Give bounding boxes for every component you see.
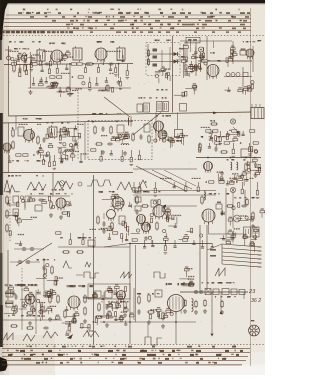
resistor R64 [138, 295, 140, 304]
resistor R56 [26, 327, 34, 329]
label V7 [156, 115, 171, 117]
left edge shadow [0, 0, 9, 375]
junction dots B [92, 121, 94, 123]
waveform row circle 2 [78, 182, 82, 186]
circled cross [230, 119, 235, 124]
footer bold word blocks [8, 346, 243, 364]
wire vertical x253 [252, 46, 254, 72]
waveform W5 [117, 182, 132, 190]
label V5 [23, 118, 42, 120]
junction dots E [103, 321, 105, 323]
bus end connector [129, 117, 132, 127]
ground B1 [36, 150, 40, 154]
bottom left parts [4, 296, 45, 315]
coil L3 [231, 162, 232, 170]
wire vertical x30 [30, 52, 32, 88]
wire vertical x190 [190, 41, 192, 52]
wire y196 cluster [25, 195, 70, 197]
footer text row 2 [7, 350, 236, 352]
wire vertical x16 B [15, 116, 17, 130]
capacitor C17 [140, 134, 143, 140]
ground A2 [68, 92, 72, 96]
ground C1 [49, 213, 53, 217]
arrowhead left at x161 [162, 205, 167, 208]
header rule line 1 [6, 14, 251, 16]
vertical x212 wire [211, 292, 213, 333]
capacitor C23 [136, 209, 139, 215]
capacitor C21 [38, 199, 44, 202]
capacitor C27 [29, 247, 35, 251]
wire vertical x185 [184, 42, 186, 76]
wire vertical x196 [195, 42, 197, 76]
resistor R48 [51, 265, 53, 274]
capacitor C26b [17, 260, 23, 264]
resistor R36 [61, 212, 69, 214]
labels input [14, 48, 29, 50]
resistor R42 [201, 195, 203, 204]
labels coils [37, 259, 56, 261]
left column parts y265-295 [36, 264, 63, 296]
header rule line 2 [4, 18, 251, 20]
black left edge upper [0, 0, 2, 60]
ground E8 [161, 324, 165, 328]
label V12 [209, 193, 229, 195]
band B left gap parts [57, 125, 86, 154]
vertical x207 E [206, 225, 208, 290]
bottom rightmid parts [149, 307, 173, 319]
tube V10b [107, 210, 116, 222]
band A upper row b [107, 51, 125, 62]
bus y122 left [0, 121, 133, 123]
wire x104 down [103, 213, 105, 219]
right edge column parts [245, 147, 261, 173]
double wire y190 [133, 190, 216, 192]
sub box y285 [88, 284, 130, 299]
resistor R50c [221, 300, 223, 308]
right D parts [221, 203, 265, 246]
waveform W12 [23, 334, 35, 341]
footer rule line 1 [2, 348, 250, 350]
IF transformer T6 [49, 125, 57, 139]
band B left parts [39, 143, 75, 161]
wire vertical x8 B [8, 123, 10, 172]
resistor R2 [24, 63, 26, 72]
resistor R50 [195, 300, 197, 308]
resistor R29 [220, 151, 228, 153]
resistor R8 [147, 49, 149, 57]
tube V9 [56, 198, 66, 211]
waveform W16 square [154, 272, 165, 278]
dashed box lower row [91, 149, 141, 166]
footer text row 5 [42, 362, 215, 364]
CH- label [210, 249, 216, 251]
bus y158 right [196, 157, 261, 159]
resistor R38 [111, 221, 113, 230]
wire vertical x177 B [177, 113, 179, 130]
resistor R43 [226, 205, 234, 207]
resistor R39 [136, 195, 138, 204]
waveform W10 [215, 268, 225, 276]
label [171, 140, 182, 142]
band A second row [32, 73, 122, 91]
wire vertical x162 [161, 50, 163, 67]
small arrow x221 [220, 311, 223, 314]
paper bottom white edge [0, 364, 265, 375]
capacitor C30 [41, 310, 47, 313]
labels band B right2 [227, 159, 246, 161]
waveform W15 square [145, 337, 162, 345]
parts x180 y270-286 [179, 267, 194, 287]
header rule line 5 [2, 29, 251, 31]
ground E1d [220, 310, 224, 314]
wire y76 bottom row [224, 76, 252, 78]
labels stage1 [9, 41, 41, 43]
footer rule line 3 [2, 356, 248, 358]
tube V11d [153, 205, 165, 220]
diode D2 [172, 60, 180, 64]
header rule line 3 [4, 22, 251, 24]
wire vertical x170 [169, 47, 171, 70]
label [210, 120, 215, 122]
left dense row y288 [9, 285, 53, 305]
circled cross D [230, 187, 235, 192]
resistor R37 [97, 215, 99, 224]
resistor R51 [15, 304, 17, 313]
tube V14 [68, 296, 80, 311]
footer rule line 4 [2, 360, 246, 362]
tube V12 [202, 209, 215, 225]
vertical x104 E [103, 292, 105, 315]
resistor R33 [6, 223, 8, 232]
label MHz [210, 52, 215, 54]
box x175 [175, 130, 183, 138]
resistor R41 [156, 221, 158, 230]
header text row 4 [71, 24, 199, 26]
capacitor C22 [103, 221, 106, 227]
waveform W4 [87, 180, 111, 186]
dashed vertical x22 [21, 268, 23, 292]
wire diode row 2 [147, 61, 172, 63]
wire vertical x156 B [155, 113, 157, 143]
label V3 [208, 60, 221, 62]
label yoke [251, 320, 255, 322]
ground C5 [251, 224, 255, 228]
bus y243 [130, 243, 212, 245]
ground E6 [123, 313, 127, 317]
band A component row [11, 60, 129, 79]
box under 244 [243, 73, 248, 77]
vertical x122 E [120, 296, 122, 301]
wire vertical x200 [200, 52, 202, 72]
label cluster 88b [67, 93, 74, 95]
bottom-left corner shadow [0, 335, 55, 375]
band A small parts [39, 81, 114, 92]
label V14 [67, 285, 93, 287]
tube V14b [117, 291, 126, 303]
wire vertical x205 D [204, 190, 206, 200]
grid mid parts [189, 54, 208, 70]
waveform W1 [4, 180, 15, 192]
tube V2 [95, 48, 107, 63]
junction dots band A [30, 63, 32, 65]
band B right lower parts [217, 170, 260, 185]
footer text row 3 [10, 354, 234, 356]
arrow glyph bottom [67, 334, 73, 339]
labels above cans [156, 89, 167, 91]
capacitor C25 [241, 205, 247, 208]
divider right segment [133, 168, 197, 170]
wire y206 right [166, 205, 197, 207]
header text row 0 [23, 9, 240, 11]
resistor R46 [62, 251, 70, 253]
vertical x200 [199, 225, 201, 290]
capacitor C3 [44, 63, 50, 66]
header text row 2 [45, 16, 234, 18]
resistor R44x [246, 198, 248, 206]
diagonal bus join [104, 244, 130, 248]
footer text row 4 [21, 358, 226, 360]
capacitor C15 [102, 126, 105, 132]
header dashed separator [0, 35, 265, 37]
vertical x244 wire [243, 292, 245, 299]
footer rule line 5 [2, 364, 242, 366]
waveform W9b [120, 272, 132, 278]
waveform W11 [3, 333, 13, 340]
black scan strip left middle [0, 113, 3, 195]
resistor R54 [57, 294, 59, 303]
labels cluster C1 [33, 189, 64, 191]
label D2 [178, 56, 185, 58]
resistor R16 [12, 128, 14, 137]
tube V5 [24, 130, 35, 144]
vertical x44 E [43, 258, 45, 290]
parts below V12 [200, 234, 255, 252]
capacitor C4 [85, 63, 91, 66]
resistor R49 [184, 299, 186, 307]
resistor R57 [64, 309, 66, 318]
bottom mid-right parts [100, 290, 134, 321]
header dense left block [2, 31, 241, 33]
deflection yoke [249, 325, 260, 336]
waveform W2 [27, 182, 46, 190]
ground C4 [144, 236, 148, 240]
hatched blocks [153, 49, 158, 52]
wire x208 down [208, 222, 210, 234]
wire vertical x187 [186, 41, 188, 58]
resistor R34 [28, 199, 36, 201]
labels bus right [183, 282, 234, 284]
wire vertical x8 [8, 46, 10, 116]
center D parts [150, 200, 170, 223]
labels band B left [12, 160, 45, 162]
bus y247 left [58, 246, 130, 248]
resistor R28 [199, 142, 201, 151]
label V1 6AW8 [49, 43, 65, 45]
cluster C3 parts [101, 194, 132, 243]
band A upper parts b [56, 51, 73, 60]
antenna terminal [5, 50, 12, 60]
waveform W14 [83, 331, 99, 337]
bottom mid extra parts [62, 318, 93, 337]
double wire y195 [133, 194, 216, 196]
cross in box [205, 289, 211, 295]
right border line [250, 8, 252, 366]
ground E5 [105, 323, 109, 327]
labels cans bus [138, 97, 166, 99]
waveform row circle 1 [60, 181, 65, 186]
IF transformer T1 [37, 48, 45, 63]
band B right upper row [199, 142, 259, 158]
IF transformer T2 [73, 46, 82, 62]
title box on dashed line [186, 37, 200, 43]
waveform labels [8, 175, 44, 177]
band B right row0 [201, 127, 255, 145]
resistor R24 [95, 143, 103, 145]
wire vertical x226 D [225, 188, 227, 242]
capacitor C29 [15, 294, 18, 300]
ground E7 [147, 320, 151, 324]
labels bottom left2 [8, 315, 40, 317]
resistor R67 [162, 311, 164, 320]
vertical x130 long [129, 244, 131, 345]
ground A3 [117, 80, 121, 84]
capacitor C12 [43, 137, 46, 143]
capacitor C16 [107, 143, 113, 146]
grid row 2 [181, 57, 207, 73]
left stack D [135, 188, 141, 193]
tube V11 [142, 223, 151, 235]
header text row 3 [76, 20, 242, 22]
glyph lead wire [76, 274, 83, 276]
label 6Q4 [243, 41, 255, 42]
vertical x135 long [135, 245, 137, 322]
wire bus A right segment [198, 60, 252, 62]
tube V13 [25, 294, 35, 307]
wires caps y249 [14, 248, 21, 250]
band A upper parts [11, 53, 39, 65]
vertical x134 E [133, 288, 135, 320]
ground B6 [254, 173, 258, 177]
footer rule line 2 [2, 352, 250, 354]
capacitor C35 [138, 309, 141, 315]
wire y234 right [209, 233, 244, 235]
diagonal pointer wire [104, 97, 130, 117]
resistor R8b [147, 58, 149, 66]
ratio det lower parts [155, 67, 170, 84]
wire vertical x148 [147, 44, 149, 64]
ratio detector dashed box [146, 43, 180, 76]
dashed box parts [101, 132, 129, 143]
resistor R32 [6, 209, 8, 218]
label V2 [96, 41, 114, 43]
cluster x182 y88 [174, 83, 197, 96]
svg-text:36 2: 36 2 [251, 298, 261, 304]
resistor R44 [252, 211, 254, 220]
resistor R50b [204, 299, 206, 307]
band A right small parts [224, 81, 254, 95]
right col parts [226, 46, 237, 68]
wire bus A lower [28, 87, 131, 89]
bus y320 left [0, 319, 62, 321]
cans on bus mid [137, 102, 187, 113]
resistor R53 [49, 294, 51, 303]
resistor R30 [245, 162, 247, 171]
coil L8 [204, 192, 205, 200]
label ratio det [155, 40, 172, 42]
resistor R59 [84, 306, 86, 315]
resistor R18 [37, 135, 39, 144]
tube V1 [51, 50, 63, 65]
resistor R26 [148, 134, 150, 143]
waveform W13 [43, 331, 58, 338]
labels left ladder [6, 191, 20, 193]
band B mid parts [154, 131, 188, 148]
header text row 1 [23, 12, 222, 14]
ground B3 [101, 150, 105, 154]
IF transformer T3 [117, 46, 125, 62]
long bus y115 [9, 112, 252, 116]
terminal box right [251, 104, 264, 119]
tube V7a [154, 121, 164, 134]
diag arrow right [233, 127, 239, 133]
capacitor C24 [221, 210, 224, 216]
vertical x22 E [21, 288, 23, 330]
cluster y88 [59, 87, 79, 97]
vertical x176 E [175, 312, 177, 345]
waveform W7 [63, 261, 72, 268]
resistor R47 [76, 251, 84, 253]
mid gap parts D [131, 215, 193, 246]
labels bottom left [5, 284, 38, 286]
waveform labels lower [30, 193, 72, 195]
coil L7 [192, 299, 194, 312]
top row mid D [133, 178, 201, 197]
label pointer [98, 90, 110, 92]
label V10 [99, 191, 115, 193]
wire vertical x243 [242, 67, 244, 94]
capacitor C5 [108, 63, 114, 66]
waveform W9 [84, 272, 99, 278]
ground B2 [60, 158, 64, 162]
resistor R31 [6, 195, 8, 204]
ground B4 [123, 151, 127, 155]
resistor R58 [84, 294, 86, 303]
resistor R66 [147, 311, 155, 313]
diagonal fan 2 [152, 170, 192, 189]
sound IF dashed box [88, 121, 152, 160]
resistor R17 [12, 140, 14, 149]
header text row 5 [67, 27, 222, 29]
labels below bus [215, 296, 236, 298]
tube V10 [112, 197, 124, 212]
resistor R22 [94, 125, 96, 134]
waveform W6 [139, 180, 147, 188]
diagonal fan 1 [136, 166, 186, 191]
band A upper row a [10, 51, 53, 71]
vertical x148 E [147, 322, 149, 337]
dashed vertical x10 [9, 190, 11, 242]
capacitor C41 [198, 290, 204, 294]
resistor R25 [132, 132, 134, 141]
diagonal down-left [16, 243, 52, 266]
ground E3 [48, 317, 52, 321]
tube V6 [3, 143, 11, 154]
svg-text:23: 23 [248, 289, 256, 295]
capacitor C20 [254, 162, 257, 168]
diode D1 [172, 52, 180, 56]
footer text row 1 [26, 346, 235, 348]
tube V7b [158, 130, 167, 142]
